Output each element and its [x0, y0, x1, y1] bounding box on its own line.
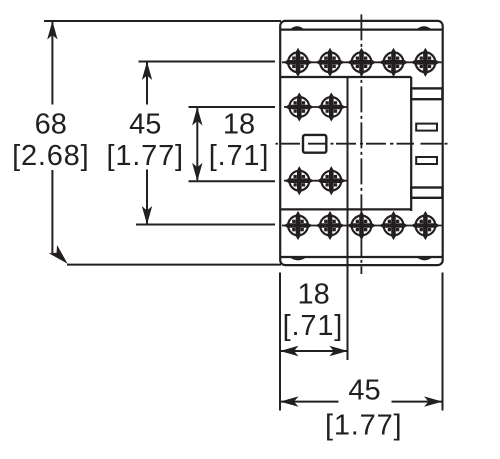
svg-text:[1.77]: [1.77] — [325, 410, 402, 442]
svg-text:68: 68 — [35, 109, 67, 141]
svg-text:[1.77]: [1.77] — [107, 140, 184, 172]
svg-text:[2.68]: [2.68] — [12, 140, 89, 172]
svg-text:45: 45 — [129, 109, 161, 141]
svg-text:45: 45 — [348, 375, 380, 407]
svg-text:18: 18 — [297, 279, 329, 311]
svg-text:18: 18 — [223, 109, 255, 141]
svg-text:[.71]: [.71] — [209, 140, 269, 172]
svg-text:[.71]: [.71] — [283, 310, 343, 342]
